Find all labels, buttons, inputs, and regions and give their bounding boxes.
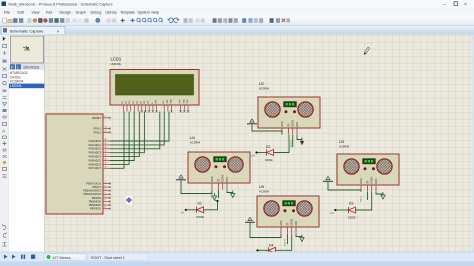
ultrasonic sensor U5 bbox=[257, 196, 319, 234]
output terminal U4 bbox=[231, 191, 235, 198]
ultrasonic sensor U3 label bbox=[339, 140, 350, 149]
title bar bbox=[0, 0, 474, 8]
wire PA2 to LCD bbox=[110, 112, 160, 149]
svg-text:×: × bbox=[57, 29, 60, 34]
svg-text:PA4/ADC4: PA4/ADC4 bbox=[89, 155, 102, 159]
svg-text:33: 33 bbox=[105, 167, 107, 169]
svg-text:VSS: VSS bbox=[180, 99, 182, 104]
svg-text:7: 7 bbox=[105, 203, 106, 205]
right window edge bbox=[473, 35, 474, 252]
microcontroller U1 pin numbers bbox=[105, 116, 107, 209]
svg-text:×: × bbox=[464, 2, 467, 8]
left vertical toolbar bbox=[0, 35, 9, 252]
svg-text:PA1/ADC1: PA1/ADC1 bbox=[89, 143, 102, 147]
node CP3 bbox=[334, 209, 336, 211]
LCD LCD1 pins bbox=[123, 105, 188, 112]
left panel bbox=[9, 35, 45, 252]
pencil cursor bbox=[364, 47, 369, 54]
svg-text:4: 4 bbox=[105, 193, 106, 195]
wire PA4 to LCD bbox=[110, 112, 139, 157]
svg-text:D1: D1 bbox=[198, 202, 202, 206]
svg-text:1: 1 bbox=[105, 182, 106, 184]
svg-text:Edit: Edit bbox=[18, 10, 24, 14]
svg-text:9: 9 bbox=[105, 116, 106, 118]
svg-text:PA7/ADC7: PA7/ADC7 bbox=[89, 166, 102, 170]
origin marker bbox=[126, 197, 131, 202]
svg-text:U4: U4 bbox=[190, 136, 195, 140]
svg-text:VEE: VEE bbox=[167, 99, 169, 104]
ultrasonic sensor U4 bbox=[188, 152, 250, 190]
svg-text:Design: Design bbox=[60, 10, 71, 14]
svg-text:427 Messa...: 427 Messa... bbox=[53, 256, 74, 260]
svg-text:VDD: VDD bbox=[183, 99, 185, 104]
wire PA0 to LCD bbox=[110, 112, 169, 142]
preview pane bbox=[11, 36, 44, 63]
LCD LCD1 unconnected pin crosses bbox=[141, 110, 190, 112]
svg-text:Tool: Tool bbox=[46, 10, 53, 14]
svg-text:34: 34 bbox=[105, 163, 107, 165]
junction below U4 bbox=[216, 200, 218, 202]
svg-text:PB4/SS: PB4/SS bbox=[92, 196, 101, 200]
svg-text:VEE: VEE bbox=[187, 99, 189, 104]
echo terminal U4 bbox=[212, 193, 216, 200]
svg-text:LM016L: LM016L bbox=[111, 62, 122, 66]
wire PA7 to LCD bbox=[110, 112, 124, 169]
diode D4 bbox=[269, 247, 276, 253]
microcontroller U1 pins bbox=[103, 118, 110, 209]
diode D3 label bbox=[349, 202, 353, 206]
ground for U4 bbox=[176, 175, 186, 180]
output terminal U3 bbox=[381, 192, 385, 199]
wire U4 trig down bbox=[218, 190, 220, 198]
wire D3 cathode to U3 echo bbox=[356, 192, 372, 210]
menu bar bbox=[0, 8, 474, 16]
svg-text:37: 37 bbox=[105, 151, 107, 153]
wire D2 to U2 echo bbox=[274, 135, 290, 153]
svg-text:DIODE: DIODE bbox=[197, 216, 205, 219]
diode D4 label bbox=[269, 243, 273, 247]
svg-text:ECHO5: ECHO5 bbox=[285, 238, 287, 246]
svg-text:–: – bbox=[443, 2, 446, 8]
wire D1 anode bbox=[187, 209, 197, 211]
wire PA1 to LCD bbox=[110, 112, 164, 145]
power terminal U2 bbox=[300, 138, 304, 146]
svg-text:HCSR04: HCSR04 bbox=[339, 145, 350, 149]
svg-text:U5: U5 bbox=[259, 185, 264, 189]
wire PA3 to LCD bbox=[110, 112, 144, 153]
svg-text:A: A bbox=[2, 129, 5, 134]
svg-text:VDD: VDD bbox=[171, 99, 173, 104]
wire PA6 to LCD bbox=[110, 112, 129, 165]
svg-text:D3: D3 bbox=[349, 202, 353, 206]
wire U4 vcc to terminal bbox=[227, 190, 233, 193]
svg-text:DIODE: DIODE bbox=[348, 216, 356, 219]
svg-text:DEVICES: DEVICES bbox=[24, 66, 40, 70]
node CP2 bbox=[255, 151, 257, 153]
tab bar bbox=[0, 26, 474, 35]
node CP1 bbox=[185, 209, 187, 211]
svg-text:PB2/AIN0/INT2: PB2/AIN0/INT2 bbox=[83, 189, 101, 193]
wire U3 gnd bbox=[328, 182, 361, 192]
svg-text:2: 2 bbox=[105, 185, 106, 187]
ultrasonic sensor U2 bbox=[258, 97, 320, 135]
svg-text:L: L bbox=[17, 66, 19, 70]
bottom strip bbox=[0, 262, 474, 266]
diode D1 bbox=[197, 207, 204, 213]
svg-text:3: 3 bbox=[105, 189, 106, 191]
svg-text:HCSR04: HCSR04 bbox=[10, 80, 23, 84]
svg-text:PB6/MISO: PB6/MISO bbox=[89, 203, 101, 207]
svg-text:LM016L: LM016L bbox=[10, 84, 22, 88]
svg-text:HCSR04: HCSR04 bbox=[259, 190, 270, 194]
svg-text:PB5/MOSI: PB5/MOSI bbox=[89, 199, 102, 203]
ultrasonic sensor U2 label bbox=[259, 82, 270, 91]
svg-text:U2: U2 bbox=[259, 82, 264, 86]
microcontroller U1 body bbox=[46, 114, 103, 214]
svg-text:D4: D4 bbox=[269, 243, 273, 247]
svg-text:PB3/AIN1/OC0: PB3/AIN1/OC0 bbox=[84, 192, 102, 196]
svg-text:File: File bbox=[4, 10, 10, 14]
svg-text:ROOT - Root sheet 1: ROOT - Root sheet 1 bbox=[91, 256, 125, 260]
ground for U3 bbox=[323, 176, 333, 181]
svg-text:PB1/T1: PB1/T1 bbox=[92, 185, 101, 189]
svg-text:XTAL1: XTAL1 bbox=[93, 127, 101, 131]
wire D3 anode bbox=[336, 209, 348, 211]
svg-text:Library: Library bbox=[106, 10, 117, 14]
diode D3 bbox=[349, 207, 356, 213]
svg-text:5: 5 bbox=[105, 196, 106, 198]
svg-text:PB7/SCK: PB7/SCK bbox=[90, 207, 101, 211]
wire U2 gnd bbox=[252, 124, 282, 135]
svg-text:6: 6 bbox=[105, 200, 106, 202]
ultrasonic sensor U4 label bbox=[190, 136, 201, 145]
ultrasonic sensor U3 bbox=[337, 154, 399, 192]
wire D4 anode bbox=[259, 249, 269, 251]
output terminal U5 bbox=[300, 235, 304, 242]
svg-text:40: 40 bbox=[105, 139, 107, 141]
diode D2 bbox=[267, 150, 274, 156]
origin marker halo bbox=[126, 196, 132, 205]
diode D1 label bbox=[198, 202, 202, 206]
microcontroller U1 unconnected PB pin crosses bbox=[109, 117, 111, 210]
svg-text:U3: U3 bbox=[339, 140, 344, 144]
svg-text:RESET: RESET bbox=[92, 116, 101, 120]
wire U5 gnd bbox=[250, 223, 281, 238]
svg-text:PA0/ADC0: PA0/ADC0 bbox=[89, 139, 102, 143]
wire U3 trig down bbox=[367, 192, 369, 200]
svg-text:LCD1: LCD1 bbox=[111, 57, 122, 62]
ground for U5 bbox=[245, 217, 255, 222]
svg-text:View: View bbox=[32, 10, 40, 14]
svg-text:Template: Template bbox=[120, 10, 135, 14]
svg-text:RW: RW bbox=[156, 100, 158, 103]
wire U5 vcc to terminal bbox=[296, 234, 302, 237]
svg-text:?: ? bbox=[97, 19, 99, 23]
svg-text:35: 35 bbox=[105, 159, 107, 161]
svg-text:Help: Help bbox=[152, 10, 160, 14]
svg-text:HCSR04: HCSR04 bbox=[190, 141, 201, 145]
svg-text:12: 12 bbox=[105, 131, 107, 133]
LCD LCD1 label bbox=[111, 57, 122, 67]
svg-text:D2: D2 bbox=[266, 145, 270, 149]
svg-text:XTAL2: XTAL2 bbox=[93, 130, 101, 134]
wire U3 vcc to terminal bbox=[376, 192, 383, 194]
wire U4 gnd bbox=[181, 180, 212, 194]
LCD LCD1 pin labels bbox=[122, 99, 189, 104]
svg-text:Debug: Debug bbox=[91, 10, 102, 14]
svg-text:8: 8 bbox=[105, 207, 106, 209]
svg-text:Multi_Ultrasonic - Proteus 8 P: Multi_Ultrasonic - Proteus 8 Professiona… bbox=[9, 3, 113, 7]
wire U2 vcc to terminal bbox=[297, 135, 302, 140]
schematic canvas bbox=[45, 35, 474, 252]
svg-text:36: 36 bbox=[105, 155, 107, 157]
LCD LCD1 body bbox=[110, 70, 199, 106]
svg-text:DIODE: DIODE bbox=[265, 159, 273, 162]
svg-text:TRIG3: TRIG3 bbox=[361, 195, 363, 202]
diode D2 label bbox=[266, 145, 270, 149]
panel/canvas separator bbox=[44, 35, 46, 252]
status bar bbox=[0, 252, 474, 262]
wire PA5 to LCD bbox=[110, 112, 134, 161]
svg-text:38: 38 bbox=[105, 147, 107, 149]
wire D1 cathode up bbox=[204, 202, 218, 210]
svg-text:ECHO1: ECHO1 bbox=[291, 139, 293, 147]
svg-text:Schematic Capture: Schematic Capture bbox=[10, 29, 45, 34]
wire D4 cathode to U5 echo bbox=[276, 234, 292, 251]
svg-text:PA6/ADC6: PA6/ADC6 bbox=[89, 162, 102, 166]
wire U2 echo down bbox=[292, 135, 294, 147]
ultrasonic sensor U5 label bbox=[259, 185, 270, 194]
svg-text:13: 13 bbox=[105, 127, 107, 129]
wire U5 echo down bbox=[287, 234, 289, 244]
svg-text:PA5/ADC5: PA5/ADC5 bbox=[89, 158, 102, 162]
svg-text:HCSR04: HCSR04 bbox=[259, 87, 270, 91]
svg-text:PA3/ADC3: PA3/ADC3 bbox=[89, 151, 102, 155]
svg-text:PB0/T0/XCK: PB0/T0/XCK bbox=[86, 181, 101, 185]
node CP4 bbox=[256, 249, 258, 251]
svg-text:39: 39 bbox=[105, 143, 107, 145]
svg-text:System: System bbox=[138, 10, 150, 14]
svg-text:PA2/ADC2: PA2/ADC2 bbox=[89, 147, 102, 151]
svg-text:Graph: Graph bbox=[76, 10, 86, 14]
devices header bbox=[9, 64, 45, 71]
wire terminal to junction bbox=[215, 200, 218, 201]
ground for U2 bbox=[247, 119, 257, 124]
toolbar bbox=[0, 16, 474, 26]
microcontroller U1 pin labels bbox=[83, 116, 101, 211]
wire D2 anode bbox=[258, 152, 267, 154]
